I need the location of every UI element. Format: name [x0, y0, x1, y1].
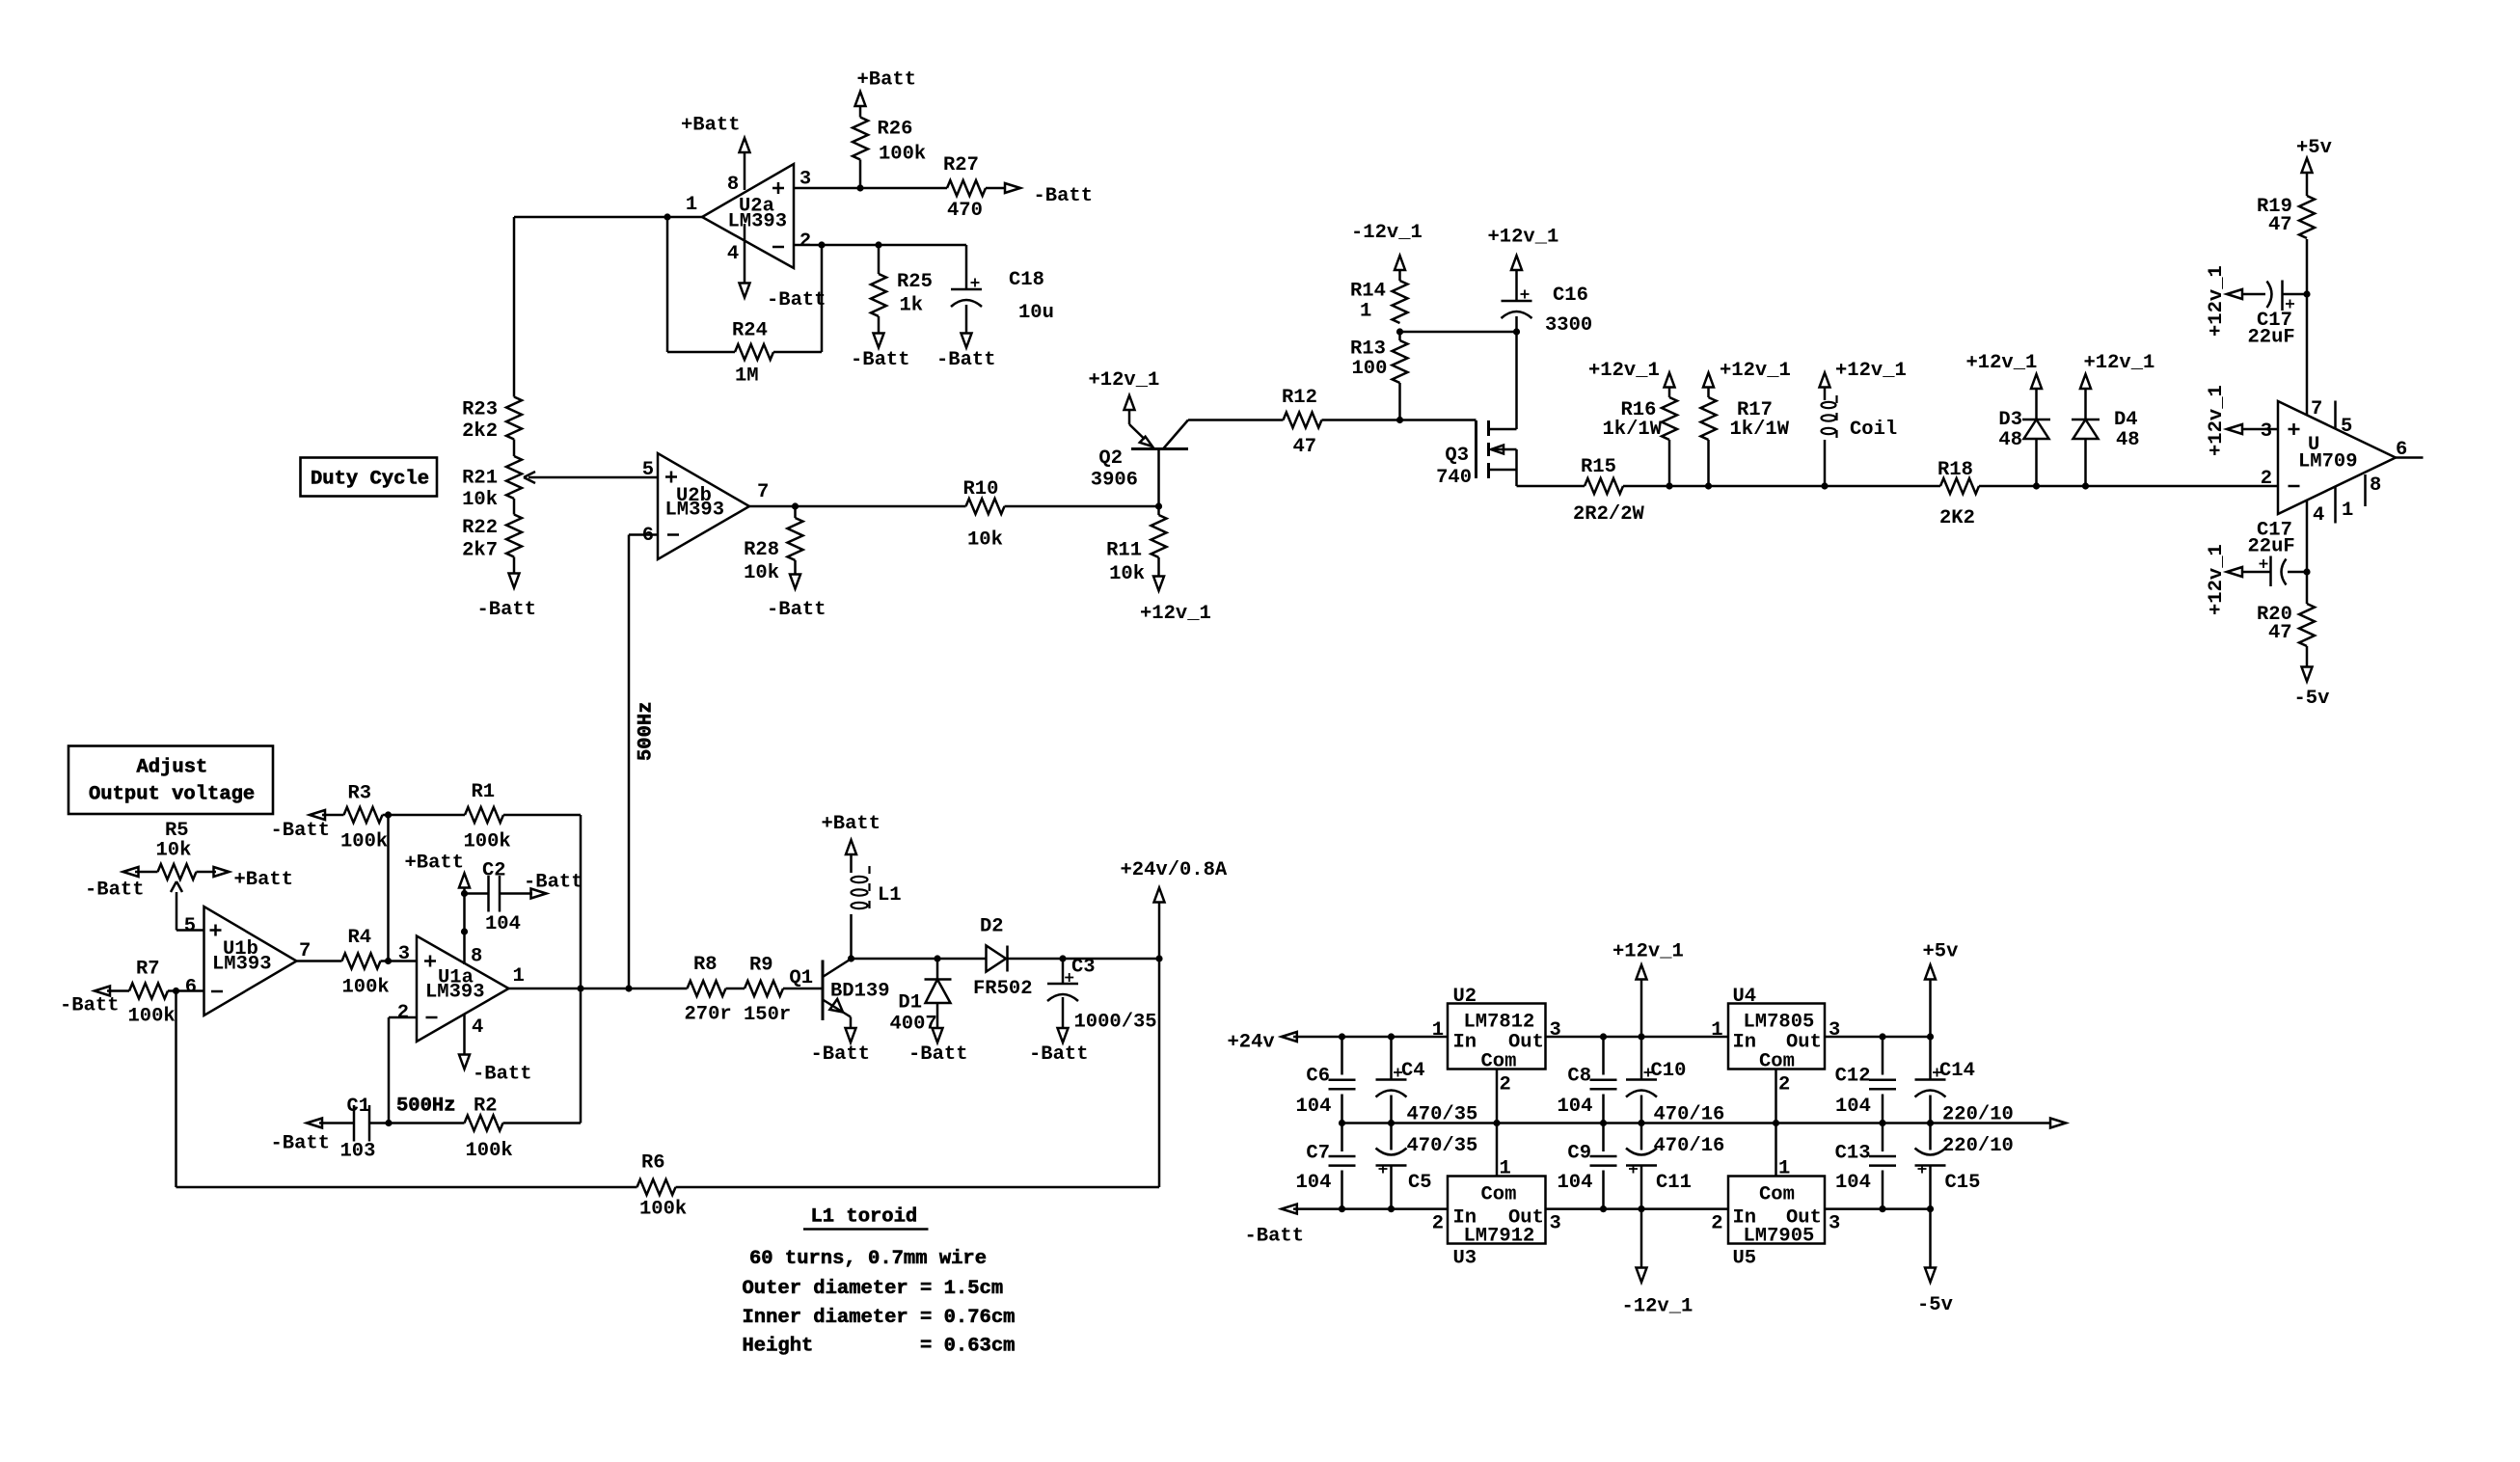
svg-text:LM393: LM393	[425, 982, 485, 1004]
svg-text:+12v_1: +12v_1	[2206, 265, 2228, 337]
resistor R1	[464, 781, 582, 853]
arrow -Batt left of R7	[60, 987, 120, 1017]
svg-text:D2: D2	[980, 916, 1004, 938]
node junction Q1 collector	[848, 955, 854, 961]
potentiometer R5	[135, 820, 216, 880]
wire +24v rail	[1293, 1036, 1448, 1039]
svg-text:Com: Com	[1481, 1184, 1517, 1206]
svg-text:2: 2	[799, 230, 811, 253]
svg-text:R10: R10	[963, 478, 999, 501]
svg-text:+12v_1: +12v_1	[1488, 227, 1559, 249]
svg-text:LM7805: LM7805	[1744, 1012, 1815, 1034]
svg-text:10k: 10k	[967, 529, 1003, 552]
wire U2a V+ pin 8	[744, 151, 746, 284]
resistor R24 feedback	[667, 217, 822, 388]
node junction rail/D4	[2082, 482, 2089, 489]
svg-text:1: 1	[513, 965, 525, 988]
svg-text:+Batt: +Batt	[405, 853, 465, 875]
svg-text:1: 1	[1778, 1158, 1790, 1180]
svg-text:C14: C14	[1939, 1060, 1975, 1082]
svg-text:Height = 0.63cm: Height = 0.63cm	[743, 1336, 1016, 1358]
node junction output/500Hz	[625, 985, 632, 991]
svg-text:4007: 4007	[890, 1014, 937, 1036]
svg-text:500Hz: 500Hz	[396, 1096, 456, 1118]
resistor R4	[342, 927, 418, 999]
capacitor C1 (103)	[319, 1096, 389, 1163]
wire rail U2out-U4in	[1546, 1036, 1729, 1039]
node junction C3	[1059, 955, 1066, 961]
svg-text:60 turns, 0.7mm wire: 60 turns, 0.7mm wire	[749, 1248, 987, 1270]
svg-text:C10: C10	[1651, 1060, 1687, 1082]
wire R6 to +24v node	[676, 960, 1160, 1187]
svg-text:R15: R15	[1581, 456, 1616, 478]
svg-text:C18: C18	[1009, 269, 1044, 291]
svg-text:2: 2	[1432, 1213, 1444, 1235]
svg-text:104: 104	[485, 913, 521, 935]
svg-text:L1 toroid: L1 toroid	[811, 1206, 918, 1229]
svg-text:100k: 100k	[128, 1006, 176, 1028]
svg-text:C12: C12	[1835, 1066, 1871, 1088]
op-amp U2b (LM393, output pin 7)	[642, 453, 770, 559]
wire R21-R22	[513, 499, 516, 515]
wire Q3 source down to rail	[1515, 470, 1518, 486]
power -12v_1 output	[1622, 1209, 1694, 1318]
svg-text:C4: C4	[1401, 1060, 1425, 1082]
svg-text:R6: R6	[641, 1152, 665, 1175]
node junction pin4/C17b	[2303, 568, 2310, 575]
svg-text:-12v_1: -12v_1	[1351, 222, 1423, 244]
svg-text:4: 4	[727, 243, 739, 265]
svg-text:D3: D3	[1998, 409, 2022, 431]
transistor Q2 (PNP 3906)	[1091, 411, 1188, 492]
svg-text:270r: 270r	[685, 1004, 732, 1026]
power +12v_1 above R16	[1588, 360, 1675, 388]
svg-text:2R2/2W: 2R2/2W	[1573, 503, 1645, 526]
svg-text:-Batt: -Batt	[477, 599, 537, 621]
wire LM709 pin 4 rail	[2306, 501, 2309, 605]
arrow -Batt left of C1	[271, 1119, 331, 1155]
svg-text:+12v_1: +12v_1	[1720, 360, 1791, 382]
power +12v_1 above R17	[1703, 360, 1791, 388]
svg-text:+5v: +5v	[1923, 941, 1959, 963]
wire rail U5out	[1825, 1207, 1931, 1210]
capacitor C10 (470/16 polarized)	[1626, 1037, 1724, 1126]
svg-text:1: 1	[2342, 500, 2353, 522]
svg-text:2K2: 2K2	[1939, 507, 1975, 529]
svg-text:U4: U4	[1733, 986, 1757, 1008]
svg-text:2: 2	[1711, 1213, 1722, 1235]
transistor Q3 (MOSFET 740)	[1436, 420, 1516, 489]
power -5v output	[1917, 1209, 1953, 1316]
svg-text:104: 104	[1558, 1172, 1593, 1194]
svg-text:5: 5	[642, 459, 654, 481]
regulator U5 (LM7905)	[1711, 1158, 1840, 1270]
wire U2b pin 6	[629, 533, 658, 536]
svg-text:R1: R1	[472, 781, 496, 803]
svg-text:R24: R24	[732, 320, 768, 342]
svg-text:In: In	[1453, 1032, 1477, 1054]
svg-text:150r: 150r	[744, 1004, 791, 1026]
wire U2b output pin 7	[749, 505, 966, 508]
svg-text:100k: 100k	[340, 831, 388, 853]
svg-text:L1: L1	[878, 884, 902, 907]
wire feedback left leg down	[175, 991, 177, 1188]
node junction +24v	[1155, 955, 1162, 961]
power +Batt above L1	[822, 813, 881, 854]
wire U2a pin 2 line	[794, 244, 966, 247]
power -5v below R20	[2294, 667, 2330, 711]
power +5v above R19	[2296, 137, 2332, 173]
svg-text:D1: D1	[898, 992, 922, 1015]
capacitor C15 (220/10 polarized)	[1915, 1124, 2014, 1209]
power +12v_1 above C16	[1488, 227, 1559, 271]
svg-text:4: 4	[472, 1016, 483, 1039]
svg-text:3300: 3300	[1545, 314, 1592, 337]
resistor R11	[1106, 506, 1166, 585]
svg-text:LM7912: LM7912	[1464, 1226, 1535, 1248]
svg-text:2k7: 2k7	[462, 540, 498, 562]
svg-text:R3: R3	[348, 783, 372, 805]
node junction C16/drain	[1513, 328, 1520, 335]
arrow +12v_1 at C17 top	[2206, 265, 2242, 337]
node junction rail/R17	[1705, 482, 1712, 489]
label box Duty Cycle	[301, 458, 438, 497]
power +Batt above R26	[855, 69, 917, 107]
svg-text:1000/35: 1000/35	[1074, 1012, 1157, 1034]
capacitor C12 (104)	[1835, 1037, 1896, 1124]
svg-text:LM393: LM393	[212, 954, 272, 976]
note toroid line 3	[743, 1307, 1016, 1329]
svg-text:2k2: 2k2	[462, 420, 498, 443]
arrow +12v_1 at C17 bottom	[2206, 544, 2242, 615]
node junction pin8 lower	[461, 928, 468, 934]
stub LM709 pin 5	[2334, 401, 2337, 429]
power +5v output	[1923, 941, 1959, 1038]
capacitor C14 (220/10 polarized)	[1915, 1037, 2014, 1126]
capacitor C17 bottom (22uF)	[2243, 520, 2307, 587]
svg-text:8: 8	[2370, 474, 2381, 497]
svg-text:104: 104	[1835, 1172, 1871, 1194]
svg-text:BD139: BD139	[830, 981, 890, 1003]
wire Q3 gate lead	[1400, 419, 1477, 421]
power -Batt below C3	[1029, 1028, 1089, 1066]
wire Q2 collector to R12	[1188, 419, 1284, 421]
svg-text:-5v: -5v	[2294, 688, 2330, 710]
svg-text:103: 103	[340, 1141, 376, 1163]
svg-text:-Batt: -Batt	[936, 349, 996, 371]
resistor R6	[637, 1152, 688, 1221]
arrow +Batt right of R5	[214, 867, 294, 891]
svg-text:+12v_1: +12v_1	[1835, 360, 1907, 382]
power +12v_1 above D3	[1966, 352, 2043, 389]
net label 500Hz (rotated)	[636, 701, 658, 761]
svg-text:100: 100	[1352, 358, 1388, 380]
svg-text:Q2: Q2	[1098, 447, 1123, 470]
svg-text:R11: R11	[1106, 540, 1142, 562]
svg-text:C2: C2	[482, 860, 506, 882]
svg-text:104: 104	[1835, 1096, 1871, 1118]
svg-text:R26: R26	[878, 119, 913, 141]
node junction rail/D3	[2033, 482, 2040, 489]
resistor R23	[462, 397, 522, 444]
capacitor C5 (470/35 polarized)	[1376, 1124, 1478, 1209]
svg-text:U5: U5	[1733, 1248, 1757, 1270]
resistor R14	[1350, 270, 1408, 340]
node junctions on supply rails	[1339, 1033, 1934, 1212]
svg-text:2: 2	[397, 1002, 409, 1024]
diode D2 (FR502)	[973, 916, 1063, 1001]
svg-text:2: 2	[1500, 1074, 1511, 1096]
arrow +24v input	[1228, 1032, 1297, 1054]
svg-text:-Batt: -Batt	[1029, 1043, 1089, 1066]
wire R23-R21	[513, 440, 516, 457]
svg-text:R21: R21	[462, 468, 498, 490]
resistor R20	[2257, 604, 2315, 666]
svg-text:D4: D4	[2114, 409, 2138, 431]
wire bottom rail to R6	[176, 1186, 637, 1189]
capacitor C8 (104)	[1558, 1037, 1617, 1124]
capacitor C4 (470/35 polarized)	[1376, 1037, 1478, 1126]
power -12v_1 above R14	[1351, 222, 1423, 270]
wire rail U4out	[1825, 1036, 1931, 1039]
wire D2 to +24v node	[1063, 958, 1159, 961]
svg-text:470/16: 470/16	[1654, 1104, 1725, 1126]
wire R23 top from U2a pin1 node	[513, 217, 516, 397]
wire LM709 pin 7 rail	[2306, 239, 2309, 416]
svg-text:10k: 10k	[462, 489, 498, 511]
svg-text:3: 3	[1550, 1019, 1561, 1042]
wire R3-R4 vertical leg	[387, 815, 390, 961]
svg-text:2: 2	[1778, 1074, 1790, 1096]
svg-text:47: 47	[2268, 622, 2292, 644]
wire 500Hz net vertical	[628, 535, 631, 989]
wire switching node	[852, 958, 987, 961]
svg-text:470/35: 470/35	[1407, 1135, 1478, 1157]
stub LM709 pin 1	[2334, 487, 2337, 524]
svg-text:R18: R18	[1937, 459, 1973, 481]
power +12v_1 above Q2	[1089, 369, 1160, 410]
svg-text:3: 3	[1829, 1019, 1840, 1042]
node junction at U2a pin 1	[664, 213, 670, 220]
svg-text:1: 1	[1432, 1019, 1444, 1042]
svg-text:Outer diameter = 1.5cm: Outer diameter = 1.5cm	[743, 1278, 1004, 1300]
svg-text:+Batt: +Batt	[681, 115, 741, 137]
node junction R10/R11/Q2 base	[1155, 502, 1162, 509]
svg-text:Q3: Q3	[1445, 445, 1469, 467]
wire U2a input node (pin 1) from R23 chain	[514, 216, 702, 219]
svg-text:3906: 3906	[1091, 470, 1138, 492]
svg-text:+12v_1: +12v_1	[1089, 369, 1160, 392]
resistor R7	[107, 959, 204, 1028]
wire Q3 drain to C16 node	[1515, 332, 1518, 429]
inductor Coil	[1822, 388, 1898, 487]
pot R21 wiper arrow	[524, 472, 658, 483]
svg-text:Coil: Coil	[1850, 419, 1897, 441]
svg-text:+Batt: +Batt	[857, 69, 917, 92]
power +12v_1 below R11	[1140, 577, 1211, 626]
svg-text:-Batt: -Batt	[767, 599, 826, 621]
svg-text:6: 6	[185, 977, 197, 999]
power +12v_1 above Coil	[1820, 360, 1907, 388]
svg-text:-Batt: -Batt	[60, 995, 120, 1017]
svg-text:+12v_1: +12v_1	[1966, 352, 2038, 374]
svg-text:1: 1	[1360, 301, 1371, 323]
svg-text:R7: R7	[136, 959, 160, 981]
svg-text:+12v_1: +12v_1	[1140, 603, 1211, 625]
svg-text:470/35: 470/35	[1407, 1104, 1478, 1126]
svg-text:3: 3	[1550, 1213, 1561, 1235]
svg-text:220/10: 220/10	[1942, 1104, 2014, 1126]
node junction rail/R16	[1666, 482, 1672, 489]
svg-text:+Batt: +Batt	[234, 869, 294, 891]
svg-text:R12: R12	[1282, 387, 1317, 409]
diode D3 (LED 48)	[1998, 389, 2050, 486]
node junction R3/R1	[385, 811, 392, 818]
resistor R15	[1573, 456, 1645, 526]
svg-text:C7: C7	[1306, 1143, 1330, 1165]
note toroid line 2	[743, 1278, 1004, 1300]
wire R1 right leg down	[580, 815, 583, 1124]
power +12v_1 output	[1612, 941, 1684, 1038]
node junction R12/R13/gate	[1396, 417, 1403, 423]
potentiometer R21	[462, 456, 522, 511]
note L1 toroid heading	[803, 1206, 929, 1230]
arrow +12v_1 into pin 3	[2206, 385, 2242, 456]
svg-text:22uF: 22uF	[2248, 327, 2295, 349]
svg-text:100k: 100k	[466, 1140, 513, 1162]
power -Batt below D1	[908, 1028, 968, 1066]
svg-text:R9: R9	[749, 955, 773, 977]
capacitor C16 (3300 polarized)	[1502, 271, 1593, 338]
svg-text:R28: R28	[744, 539, 779, 561]
svg-text:C11: C11	[1656, 1172, 1692, 1194]
power -Batt below Q1	[811, 1028, 871, 1066]
diode D4 (LED 48)	[2072, 389, 2140, 486]
svg-text:104: 104	[1558, 1096, 1593, 1118]
svg-text:LM393: LM393	[728, 211, 788, 233]
node junction pin2-loop/C1/R2	[385, 1120, 392, 1126]
svg-text:22uF: 22uF	[2248, 536, 2295, 558]
arrow -Batt right of C2	[524, 872, 583, 899]
svg-text:Output voltage: Output voltage	[89, 784, 255, 806]
resistor R26	[853, 106, 926, 188]
wire R22 bottom	[513, 557, 516, 574]
svg-text:+12v_1: +12v_1	[1588, 360, 1660, 382]
capacitor C7 (104)	[1296, 1124, 1356, 1209]
resistor R19	[2257, 173, 2315, 238]
arrow -Batt input	[1245, 1205, 1305, 1248]
svg-text:10k: 10k	[1109, 563, 1145, 585]
svg-text:R14: R14	[1350, 281, 1386, 303]
svg-text:Q1: Q1	[789, 967, 813, 989]
svg-text:+12v_1: +12v_1	[1612, 941, 1684, 963]
svg-text:4: 4	[2313, 504, 2324, 527]
resistor R8	[685, 954, 745, 1026]
wire U1a pin 8 power	[463, 888, 466, 965]
svg-text:+24v/0.8A: +24v/0.8A	[1121, 859, 1228, 881]
node junction R4/R3 leg	[385, 958, 392, 964]
power +12v_1 above D4	[2080, 352, 2154, 389]
svg-text:-5v: -5v	[1917, 1294, 1953, 1316]
wire U3 pin 1	[1496, 1124, 1499, 1177]
node junction D1	[934, 955, 940, 961]
arrow to -Batt right of R27	[1005, 183, 1093, 207]
pot R5 wiper to U1b pin 5	[171, 881, 204, 931]
svg-text:-Batt: -Batt	[85, 880, 145, 902]
capacitor C2 (104)	[465, 860, 533, 936]
capacitor C13 (104)	[1835, 1124, 1896, 1209]
svg-text:R2: R2	[474, 1096, 498, 1118]
svg-text:C1: C1	[347, 1096, 371, 1118]
svg-text:C8: C8	[1567, 1066, 1591, 1088]
node junction pin7/C17a	[2303, 290, 2310, 297]
svg-text:LM7812: LM7812	[1464, 1012, 1535, 1034]
svg-text:104: 104	[1296, 1096, 1332, 1118]
svg-text:R4: R4	[348, 927, 372, 949]
svg-text:C5: C5	[1408, 1172, 1432, 1194]
node junction pin3/R26	[856, 184, 863, 191]
arrow common rail output	[2050, 1119, 2066, 1128]
svg-text:C16: C16	[1553, 284, 1588, 307]
capacitor C9 (104)	[1558, 1124, 1617, 1209]
svg-text:2: 2	[2261, 468, 2272, 490]
svg-text:-Batt: -Batt	[767, 289, 826, 311]
resistor R2	[389, 1096, 581, 1163]
node junction output/R1 leg	[577, 985, 583, 991]
svg-text:47: 47	[1293, 436, 1317, 458]
arrow -Batt left of R3	[271, 810, 331, 842]
svg-text:7: 7	[757, 481, 769, 503]
svg-text:LM709: LM709	[2298, 451, 2358, 474]
svg-text:8: 8	[727, 174, 739, 196]
power -Batt below C18	[936, 334, 996, 372]
svg-text:-12v_1: -12v_1	[1622, 1296, 1694, 1318]
svg-text:Com: Com	[1481, 1051, 1517, 1073]
svg-text:R23: R23	[462, 399, 498, 421]
svg-text:47: 47	[2268, 214, 2292, 236]
svg-text:Inner diameter = 0.76cm: Inner diameter = 0.76cm	[743, 1307, 1016, 1329]
svg-text:470/16: 470/16	[1654, 1135, 1725, 1157]
svg-text:-Batt: -Batt	[473, 1064, 532, 1086]
svg-text:1: 1	[1711, 1019, 1722, 1042]
svg-text:LM7905: LM7905	[1744, 1226, 1815, 1248]
wire R14 junction to C16	[1400, 331, 1517, 334]
svg-text:10k: 10k	[744, 562, 779, 584]
svg-text:740: 740	[1436, 467, 1472, 489]
power +Batt above U2a	[681, 115, 750, 153]
svg-text:10u: 10u	[1018, 302, 1054, 324]
svg-text:C9: C9	[1567, 1143, 1591, 1165]
svg-text:8: 8	[471, 946, 482, 968]
node junction pin2/R24	[818, 241, 825, 248]
svg-text:10k: 10k	[156, 840, 192, 862]
svg-text:5: 5	[184, 915, 196, 937]
resistor R17	[1701, 388, 1790, 487]
resistor R13	[1350, 338, 1408, 420]
svg-text:+Batt: +Batt	[822, 813, 881, 835]
resistor R12	[1282, 387, 1400, 458]
svg-text:R22: R22	[462, 517, 498, 539]
resistor R18	[1937, 459, 1979, 529]
svg-text:R27: R27	[943, 154, 979, 176]
svg-text:LM393: LM393	[665, 500, 725, 522]
wire U1a pin 2 loop	[389, 1017, 417, 1124]
node junction rail/Coil	[1821, 482, 1828, 489]
svg-text:-Batt: -Batt	[271, 820, 331, 842]
stub LM709 pin 8	[2364, 474, 2367, 506]
svg-text:Com: Com	[1759, 1184, 1795, 1206]
wire U2a pin 3 output line	[794, 187, 947, 190]
